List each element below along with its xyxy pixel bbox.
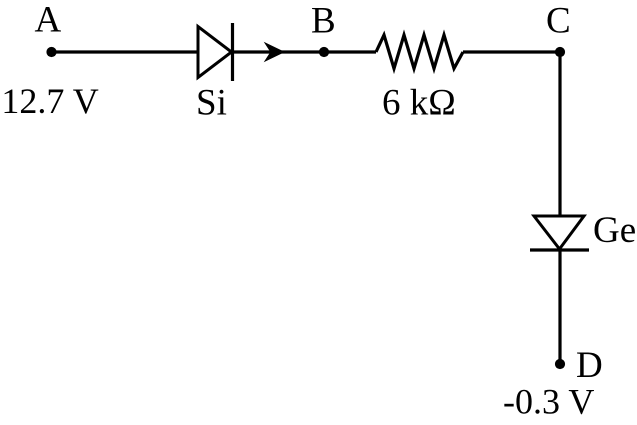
diode Ge triangle <box>534 216 584 249</box>
svg-text:Ge: Ge <box>593 210 636 251</box>
wire A to Si diode <box>52 50 199 53</box>
diode Si cathode bar <box>231 23 234 81</box>
wire Si diode to node B and resistor <box>233 50 377 53</box>
svg-text:6 kΩ: 6 kΩ <box>382 82 456 123</box>
svg-text:-0.3 V: -0.3 V <box>503 381 594 421</box>
svg-text:B: B <box>311 1 336 42</box>
svg-text:12.7 V: 12.7 V <box>1 81 98 121</box>
svg-text:C: C <box>546 1 571 42</box>
node D dot <box>555 359 565 369</box>
wire resistor to node C <box>463 50 560 53</box>
svg-text:Si: Si <box>196 82 227 123</box>
diode Si triangle <box>198 27 232 78</box>
svg-text:D: D <box>576 345 603 386</box>
wire node C down to Ge diode <box>558 52 561 216</box>
svg-text:A: A <box>35 0 62 41</box>
wire Ge diode to node D <box>558 250 561 364</box>
node B dot <box>319 47 329 57</box>
diode Ge cathode bar <box>530 248 589 251</box>
node C dot <box>555 47 565 57</box>
node A dot <box>46 47 56 57</box>
resistor R 6k zigzag <box>376 35 463 69</box>
current arrow <box>265 43 284 62</box>
